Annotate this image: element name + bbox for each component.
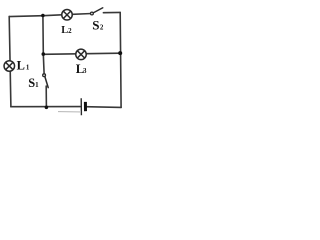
- lamp L2 (circle with X) on top wire: [62, 10, 73, 20]
- junction node: top of middle branch: [41, 14, 45, 18]
- lamp L1 (circle with X) on left wire: [4, 61, 15, 72]
- switch S2 pivot circle: [91, 12, 94, 15]
- switch S2 blade (open, angled up): [93, 8, 103, 13]
- battery long plate (positive): [80, 98, 82, 115]
- wire: bottom side, right segment from battery to bottom-right corner: [86, 106, 122, 109]
- wire: top side, left segment to switch S2 pivot: [9, 14, 92, 17]
- wire: middle horizontal branch with L3: [43, 53, 120, 54]
- svg-text:S1: S1: [28, 76, 39, 90]
- lamp L3 (circle with X) on middle branch: [76, 49, 87, 60]
- junction node: bottom wire / S1 branch: [45, 106, 49, 110]
- junction node: right side / L3 wire: [118, 51, 122, 55]
- battery short thick plate (negative): [84, 102, 87, 111]
- svg-text:L3: L3: [76, 62, 87, 76]
- wire: top side, right segment from S2 fixed contact to top-right corner: [103, 11, 120, 13]
- svg-text:L2: L2: [61, 25, 72, 36]
- junction node: middle branch / L3 wire: [42, 52, 46, 56]
- faint scan artifact line below battery: [58, 111, 81, 113]
- switch S1 blade (open, angled down-right): [45, 76, 48, 87]
- wire: left side vertical: [9, 16, 11, 106]
- svg-text:L1: L1: [17, 58, 30, 72]
- svg-text:S2: S2: [92, 17, 104, 32]
- wire: S1 branch upper segment: [42, 54, 45, 74]
- wire: S1 branch lower segment to bottom junction: [45, 86, 47, 107]
- wire: right side vertical: [119, 12, 122, 107]
- switch S1 pivot circle: [43, 74, 46, 77]
- wire: middle branch vertical (top junction to middle junction): [42, 15, 44, 54]
- wire: bottom side, left segment to battery: [11, 106, 80, 108]
